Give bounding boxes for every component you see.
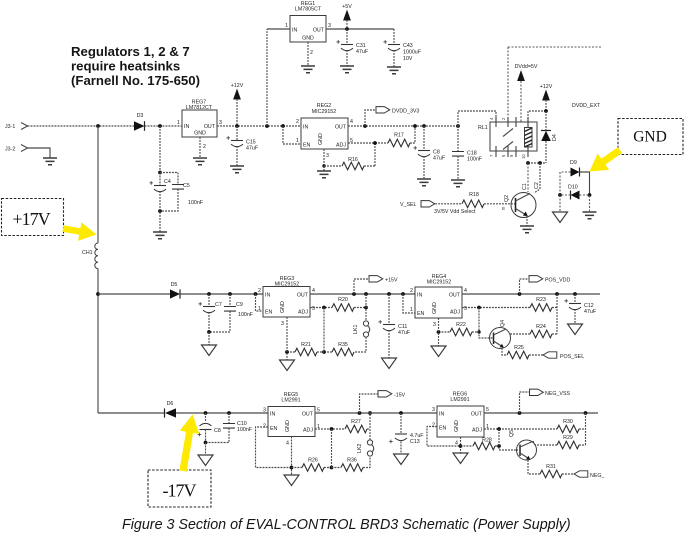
svg-text:2: 2 bbox=[258, 288, 261, 294]
node REG4 ADJ junction bbox=[477, 306, 481, 310]
wire REG7 OUT to rail bbox=[217, 125, 301, 127]
ground triangle REG5 bbox=[284, 475, 299, 486]
wire dashed DVDD bus top bbox=[508, 47, 601, 122]
node C7/C9 bottom bbox=[207, 330, 211, 334]
inductor CH1 bbox=[82, 243, 98, 269]
callout box GND bbox=[618, 119, 683, 155]
svg-text:OUT: OUT bbox=[471, 412, 483, 418]
capacitor C31 47uF bbox=[336, 29, 368, 66]
svg-text:2: 2 bbox=[432, 423, 435, 429]
svg-text:+12V: +12V bbox=[231, 83, 244, 89]
power DVdd=5V bbox=[515, 64, 538, 122]
ground REG2 bbox=[323, 166, 325, 171]
svg-text:R26: R26 bbox=[308, 458, 318, 464]
svg-text:3: 3 bbox=[281, 321, 284, 327]
svg-text:GND: GND bbox=[302, 36, 314, 42]
node C7 stem bbox=[207, 292, 211, 296]
node C18 stem bbox=[456, 124, 460, 128]
node REG1 feed bbox=[265, 124, 269, 128]
wire C4 to ground bbox=[159, 191, 161, 232]
svg-text:OUT: OUT bbox=[302, 412, 314, 418]
capacitor C10 100nF bbox=[206, 413, 253, 443]
transistor Q2 bbox=[502, 193, 536, 218]
capacitor C12 47uF bbox=[564, 294, 596, 324]
svg-text:1: 1 bbox=[410, 307, 413, 313]
node C11 stem bbox=[387, 292, 391, 296]
wire D4 vertical bbox=[545, 111, 547, 163]
svg-text:Q4: Q4 bbox=[500, 320, 506, 327]
svg-text:R27: R27 bbox=[351, 419, 361, 425]
wire R16 up to ADJ row bbox=[374, 143, 376, 166]
svg-text:Q2: Q2 bbox=[504, 195, 510, 202]
svg-text:OUT: OUT bbox=[449, 293, 461, 299]
resistor R22 bbox=[439, 322, 480, 336]
svg-text:3: 3 bbox=[328, 23, 331, 29]
svg-text:1000uF: 1000uF bbox=[403, 50, 422, 56]
svg-text:5: 5 bbox=[312, 306, 315, 312]
regulator REG7 LM7812CT bbox=[177, 100, 222, 151]
svg-text:4: 4 bbox=[286, 441, 289, 447]
svg-text:IN: IN bbox=[303, 125, 308, 131]
svg-text:LM2991: LM2991 bbox=[281, 398, 300, 404]
power +12V right bbox=[540, 84, 553, 111]
svg-text:+17V: +17V bbox=[12, 209, 50, 229]
ground triangle C8b bbox=[198, 455, 213, 466]
resistor R17 bbox=[388, 126, 415, 147]
wire REG7 GND pin 2 bbox=[199, 137, 201, 158]
connector J3-2 bbox=[5, 145, 28, 153]
capacitor C11 47uF bbox=[378, 294, 410, 358]
node R26/R36 junction bbox=[330, 466, 334, 470]
svg-text:DVDD_3V3: DVDD_3V3 bbox=[392, 109, 419, 115]
ground C43 bbox=[387, 67, 401, 74]
node D4 top bbox=[544, 109, 548, 113]
node C4 branch bbox=[158, 124, 162, 128]
svg-text:EN: EN bbox=[439, 426, 447, 432]
svg-text:47uF: 47uF bbox=[584, 309, 597, 315]
wire LK2 top to rail bbox=[369, 413, 371, 440]
svg-text:POS_VDD: POS_VDD bbox=[545, 278, 570, 284]
wire REG1 OUT to C43 bbox=[326, 28, 394, 30]
svg-text:3: 3 bbox=[263, 408, 266, 414]
regulator REG1 LM7805CT bbox=[285, 1, 331, 56]
wire mid rail to D5 bbox=[98, 293, 170, 295]
svg-text:LM7805CT: LM7805CT bbox=[295, 6, 322, 12]
svg-text:IN: IN bbox=[184, 124, 189, 130]
flag DVDD_3V3 bbox=[365, 107, 419, 126]
svg-text:100nF: 100nF bbox=[188, 200, 204, 206]
wire D5 to REG3 bbox=[180, 293, 263, 295]
svg-text:C43: C43 bbox=[403, 43, 413, 49]
svg-text:GND: GND bbox=[194, 131, 206, 137]
svg-text:9: 9 bbox=[509, 154, 514, 157]
svg-text:EN: EN bbox=[270, 426, 278, 432]
resistor R35 bbox=[324, 342, 354, 356]
node ADJ junction REG3 bbox=[322, 306, 326, 310]
resistor R36 (REG5) bbox=[332, 456, 371, 471]
svg-text:47uF: 47uF bbox=[433, 156, 446, 162]
node +5V stem bbox=[345, 27, 349, 31]
svg-text:GND: GND bbox=[633, 129, 667, 146]
wire REG2 OUT rail bbox=[348, 125, 458, 127]
ground triangle REG6 bbox=[453, 453, 468, 464]
node C8 stem bbox=[422, 124, 426, 128]
jumper LK1 bbox=[353, 321, 370, 337]
svg-text:2: 2 bbox=[501, 117, 506, 120]
svg-text:ADJ: ADJ bbox=[450, 310, 460, 316]
node R28 right bbox=[497, 444, 501, 448]
svg-text:47uF: 47uF bbox=[356, 49, 369, 55]
wire C8b to ground bbox=[205, 443, 207, 456]
svg-text:ADJ: ADJ bbox=[303, 428, 313, 434]
ground Q2 bbox=[520, 226, 534, 233]
regulator REG4 MIC29152 bbox=[410, 274, 467, 328]
callout box +17V bbox=[2, 199, 64, 236]
svg-text:RL1: RL1 bbox=[478, 125, 488, 131]
regulator REG6 LM2991 bbox=[432, 392, 489, 447]
svg-text:C7: C7 bbox=[215, 302, 222, 308]
wire D9 right arm bbox=[580, 172, 590, 195]
ground triangle D9/D10 left bbox=[553, 212, 568, 223]
svg-text:47uF: 47uF bbox=[246, 146, 259, 152]
svg-text:100nF: 100nF bbox=[237, 427, 253, 433]
svg-text:GND: GND bbox=[432, 302, 438, 314]
node REG5 GND junction bbox=[290, 466, 294, 470]
wire ADJ vertical bbox=[323, 308, 325, 353]
svg-text:R16: R16 bbox=[348, 157, 358, 163]
capacitor C43 1000uF 10V bbox=[383, 29, 421, 67]
node -15V stem bbox=[358, 411, 362, 415]
node ADJ junction bbox=[373, 141, 377, 145]
node C4/C5 bottom bbox=[158, 209, 162, 213]
ground C8 bbox=[417, 179, 431, 186]
svg-text:5: 5 bbox=[486, 407, 489, 413]
svg-text:-17V: -17V bbox=[163, 481, 197, 501]
node C8b/C10 bottom bbox=[204, 441, 208, 445]
wire J3-1 to D3 bbox=[28, 125, 135, 127]
resistor R21 bbox=[287, 342, 324, 356]
wire down to C4/C5 bbox=[159, 126, 161, 173]
svg-text:D10: D10 bbox=[568, 185, 578, 191]
resistor R23 bbox=[530, 297, 557, 311]
svg-text:EN: EN bbox=[417, 311, 425, 317]
capacitor C18 100nF bbox=[452, 126, 483, 180]
svg-text:47uF: 47uF bbox=[398, 330, 411, 336]
wire Q5 emitter to R31 bbox=[528, 460, 540, 474]
wire Q4 base from ADJ bbox=[479, 308, 494, 339]
wire R20 vertical bbox=[365, 294, 367, 321]
svg-text:+12V: +12V bbox=[540, 84, 553, 90]
wire relay pin1 top to D4 node bbox=[528, 111, 546, 122]
wire REG6 GND pin 4 bbox=[460, 437, 462, 453]
node REG6 ADJ junction bbox=[497, 427, 501, 431]
jumper LK2 bbox=[357, 440, 374, 456]
wire ADJ vertical REG6 bbox=[499, 429, 518, 450]
transistor Q5 bbox=[509, 430, 537, 460]
svg-text:4: 4 bbox=[464, 288, 467, 294]
capacitor C4 bbox=[149, 173, 170, 192]
svg-text:4: 4 bbox=[312, 288, 315, 294]
svg-text:D4: D4 bbox=[552, 134, 558, 141]
svg-text:C1: C1 bbox=[522, 183, 528, 190]
wire EN jumper REG3 bbox=[256, 294, 264, 311]
resistor R20 bbox=[332, 297, 366, 311]
node R16 left bbox=[322, 164, 325, 167]
node C10 stem bbox=[227, 411, 231, 415]
node POS_VDD stem bbox=[518, 292, 522, 296]
ground earth D9/D10 right bbox=[583, 212, 597, 219]
node REG4 GND junction bbox=[437, 330, 441, 334]
node relay pin10 bbox=[526, 161, 530, 165]
svg-text:V_SEL: V_SEL bbox=[400, 202, 417, 208]
node C12 stem bbox=[573, 292, 577, 296]
svg-text:C8: C8 bbox=[214, 428, 221, 434]
regulator REG3 MIC29152 bbox=[258, 276, 315, 327]
diode D6 bbox=[165, 401, 177, 418]
node R21/R35 junction bbox=[322, 350, 326, 354]
svg-text:ADJ: ADJ bbox=[298, 310, 308, 316]
diode D10 bbox=[568, 185, 580, 200]
svg-text:1: 1 bbox=[258, 306, 261, 312]
svg-text:3: 3 bbox=[326, 153, 329, 159]
capacitor C9 100nF bbox=[209, 294, 254, 332]
wire C2 down to Q2 bbox=[534, 163, 540, 193]
svg-text:OUT: OUT bbox=[313, 28, 325, 34]
capacitor C8 47uF bbox=[413, 126, 445, 179]
svg-text:2: 2 bbox=[296, 119, 299, 125]
svg-text:C2: C2 bbox=[534, 182, 540, 189]
svg-text:2: 2 bbox=[203, 144, 206, 150]
svg-text:-15V: -15V bbox=[394, 393, 406, 399]
node DVDD_3V3 stem bbox=[363, 124, 367, 128]
wire REG4 OUT rail POS_VDD bbox=[462, 293, 600, 295]
wire REG3 GND pin 3 bbox=[286, 317, 288, 360]
svg-text:+5V: +5V bbox=[342, 4, 352, 10]
resistor R29 bbox=[535, 435, 586, 449]
resistor R31 bbox=[540, 464, 574, 478]
flag POS_VDD bbox=[520, 276, 571, 294]
wire relay bottom rail bbox=[528, 162, 546, 164]
ground J3-2 bbox=[43, 158, 57, 165]
svg-text:+15V: +15V bbox=[385, 278, 398, 284]
svg-text:Q5: Q5 bbox=[509, 430, 515, 437]
yellow arrow to -17V rail bbox=[179, 415, 199, 472]
wire D10 left to ground bbox=[560, 195, 590, 212]
svg-text:10: 10 bbox=[521, 154, 526, 159]
wire EN jumper REG2 bbox=[283, 126, 301, 144]
svg-text:GND: GND bbox=[454, 420, 460, 432]
node R20 right bbox=[364, 306, 368, 310]
ground triangle REG3 bbox=[280, 360, 295, 371]
svg-text:IN: IN bbox=[417, 293, 422, 299]
svg-text:J3-1: J3-1 bbox=[5, 124, 15, 130]
node R22 tap bbox=[477, 330, 480, 333]
svg-text:R31: R31 bbox=[546, 464, 556, 470]
node C13 stem bbox=[399, 411, 403, 415]
svg-text:ADJ: ADJ bbox=[336, 143, 346, 149]
node R23 rail top bbox=[555, 292, 559, 296]
yellow arrow to ground node bbox=[590, 147, 623, 171]
wire D3 to REG7 bbox=[145, 125, 183, 127]
wire Q5 collector to R29 bbox=[533, 441, 535, 445]
node REG6 GND junction bbox=[459, 444, 463, 448]
svg-text:EN: EN bbox=[303, 143, 311, 149]
capacitor C5 100nF bbox=[160, 173, 204, 212]
node REG2 EN jumper bbox=[281, 124, 285, 128]
flag V_SEL bbox=[400, 201, 462, 208]
wire REG5 OUT rail bbox=[315, 412, 437, 414]
relay RL1 bbox=[478, 117, 537, 159]
node mid rail junction bbox=[96, 292, 100, 296]
svg-text:LM2991: LM2991 bbox=[450, 397, 469, 403]
svg-text:IN: IN bbox=[292, 28, 297, 34]
node D10 left bbox=[558, 193, 562, 197]
diode D9 bbox=[570, 160, 580, 177]
wire R30/R29 vertical bbox=[585, 413, 587, 445]
node D10 right bbox=[588, 193, 592, 197]
wire EN jumper REG4 bbox=[403, 294, 415, 313]
wire R23/R24 vertical bbox=[556, 294, 558, 334]
ground C4/C5 bbox=[153, 232, 167, 239]
svg-text:C13: C13 bbox=[410, 439, 420, 445]
wire LK1 to R35 bbox=[354, 337, 366, 352]
wire REG4 GND pin bbox=[438, 318, 440, 346]
svg-text:DVdd=5V: DVdd=5V bbox=[515, 64, 538, 70]
svg-text:10V: 10V bbox=[403, 56, 413, 62]
svg-text:MIC29152: MIC29152 bbox=[427, 280, 451, 286]
resistor R27 bbox=[345, 419, 370, 433]
node +17V rail top junction bbox=[96, 124, 100, 128]
node C9 stem bbox=[228, 292, 232, 296]
node REG3 EN jumper bbox=[254, 292, 258, 296]
flag NEG_ bbox=[574, 471, 604, 479]
svg-text:4: 4 bbox=[489, 117, 494, 120]
diode D3 bbox=[134, 113, 145, 131]
wire REG5 EN jumper bbox=[256, 427, 292, 468]
svg-text:OUT: OUT bbox=[204, 124, 216, 130]
resistor R30 bbox=[557, 419, 586, 433]
wire REG6 EN jumper bbox=[427, 427, 461, 447]
svg-text:4: 4 bbox=[350, 119, 353, 125]
svg-text:100nF: 100nF bbox=[238, 312, 254, 318]
flag +15V bbox=[354, 276, 398, 294]
svg-text:R24: R24 bbox=[536, 324, 546, 330]
svg-text:C5: C5 bbox=[183, 183, 190, 189]
svg-text:GND: GND bbox=[318, 133, 324, 145]
wire up to REG1 input bbox=[266, 29, 268, 126]
wire rail up-over to relay pin 4 bbox=[458, 111, 496, 126]
svg-text:EN: EN bbox=[265, 310, 273, 316]
svg-text:GND: GND bbox=[280, 301, 286, 313]
wire C1 down to Q2 bbox=[527, 163, 529, 192]
wire ADJ vertical REG5 bbox=[331, 429, 333, 468]
resistor R16 bbox=[324, 157, 375, 170]
ground triangle C13 bbox=[394, 454, 409, 465]
svg-text:3: 3 bbox=[433, 322, 436, 328]
svg-text:LK2: LK2 bbox=[357, 444, 363, 453]
diode D4 bbox=[541, 131, 558, 142]
node R17 top bbox=[413, 124, 417, 128]
node +15V stem bbox=[352, 292, 356, 296]
ground triangle C11 bbox=[382, 358, 397, 369]
svg-text:R25: R25 bbox=[514, 345, 524, 351]
svg-text:OUT: OUT bbox=[297, 293, 309, 299]
svg-text:OUT: OUT bbox=[335, 125, 347, 131]
wire REG3 OUT rail bbox=[310, 293, 415, 295]
svg-text:3V/5V Vdd Select: 3V/5V Vdd Select bbox=[434, 209, 476, 215]
ground C31 bbox=[340, 66, 354, 73]
wire Q4 emitter to R25 bbox=[502, 348, 507, 355]
ground triangle C7 bbox=[202, 345, 217, 356]
wire -17V rail corner bbox=[98, 412, 164, 414]
svg-text:R22: R22 bbox=[456, 322, 466, 328]
svg-text:R30: R30 bbox=[563, 419, 573, 425]
wire REG4 ADJ row bbox=[462, 307, 530, 309]
svg-text:R18: R18 bbox=[469, 192, 479, 198]
wire REG5 ADJ row bbox=[315, 428, 345, 430]
svg-text:D3: D3 bbox=[137, 113, 144, 119]
node R30 rail top bbox=[584, 411, 588, 415]
yellow arrow to +17V rail bbox=[62, 222, 96, 241]
capacitor C13 4.7uF bbox=[389, 413, 424, 454]
connector J3-1 bbox=[5, 123, 28, 131]
svg-text:GND: GND bbox=[285, 420, 291, 432]
svg-text:ADJ: ADJ bbox=[472, 428, 482, 434]
svg-text:(Farnell No. 175-650): (Farnell No. 175-650) bbox=[71, 73, 200, 88]
resistor R26 (REG5) bbox=[292, 458, 332, 472]
node REG3 GND junction bbox=[285, 350, 289, 354]
node C8b stem bbox=[204, 411, 208, 415]
capacitor C8 (bottom) bbox=[198, 413, 221, 443]
ground triangle REG4 bbox=[431, 346, 446, 357]
wire +17V vertical rail bbox=[97, 126, 99, 243]
transistor Q4 bbox=[490, 320, 511, 349]
node NEG_VSS stem bbox=[518, 411, 522, 415]
svg-text:require heatsinks: require heatsinks bbox=[71, 59, 180, 74]
node REG5 ADJ junction bbox=[330, 427, 334, 431]
wire D9 left arm bbox=[560, 172, 571, 195]
wire to mid ground bbox=[208, 332, 210, 345]
svg-text:D5: D5 bbox=[171, 282, 178, 288]
svg-text:IN: IN bbox=[265, 293, 270, 299]
wire REG5 GND pin 4 bbox=[291, 437, 293, 476]
power +5V bbox=[342, 4, 352, 29]
wire REG6 OUT rail NEG_VSS bbox=[484, 412, 598, 414]
svg-text:MIC29152: MIC29152 bbox=[312, 109, 336, 115]
node C2 wire bbox=[538, 161, 542, 165]
resistor R24 bbox=[509, 324, 557, 338]
svg-text:NEG_: NEG_ bbox=[590, 473, 604, 479]
svg-text:1: 1 bbox=[285, 23, 288, 29]
wire REG2 ADJ to R17 bbox=[348, 142, 388, 144]
wire Q2 emitter to ground bbox=[526, 216, 528, 226]
node LK2 rail bbox=[368, 411, 372, 415]
capacitor C15 47uF bbox=[226, 126, 258, 166]
svg-text:Regulators 1, 2 & 7: Regulators 1, 2 & 7 bbox=[71, 44, 190, 59]
svg-text:2: 2 bbox=[310, 50, 313, 56]
regulator REG5 LM2991 bbox=[263, 392, 320, 447]
diode D5 bbox=[170, 282, 180, 299]
svg-text:3: 3 bbox=[432, 407, 435, 413]
svg-text:7: 7 bbox=[489, 154, 494, 157]
svg-text:R29: R29 bbox=[563, 435, 573, 441]
flag POS_SEL bbox=[543, 352, 584, 360]
svg-text:DVDD_EXT: DVDD_EXT bbox=[572, 103, 601, 109]
svg-text:D9: D9 bbox=[570, 160, 577, 166]
svg-text:1: 1 bbox=[296, 138, 299, 144]
svg-text:IN: IN bbox=[439, 412, 444, 418]
svg-text:R35: R35 bbox=[338, 342, 348, 348]
